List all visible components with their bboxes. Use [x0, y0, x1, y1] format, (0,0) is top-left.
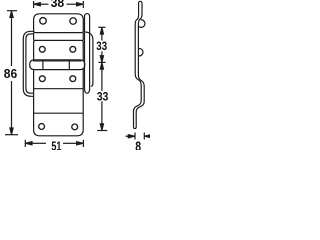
dim 51 right tick — [82, 140, 84, 147]
keeper side view hairpin loop — [85, 14, 90, 90]
body bottom edge line — [34, 88, 84, 90]
dim 33 chain mid tick — [98, 61, 105, 63]
dim 51 right arrow — [63, 142, 83, 145]
bar inner top line — [33, 60, 82, 62]
top plate hole left — [40, 18, 47, 25]
body hole row1 left — [39, 46, 45, 52]
svg-text:38: 38 — [51, 0, 65, 10]
dim 8 right tick — [143, 133, 145, 140]
hinge edge line left — [33, 33, 35, 41]
dim 33 chain top tick — [98, 26, 105, 28]
lower plate hole right — [72, 124, 78, 130]
strike side profile right edge — [136, 3, 144, 127]
bail wire outer — [23, 31, 33, 96]
body hole row2 left — [39, 76, 45, 82]
top keeper plate — [34, 14, 84, 33]
dim 38 right arrow — [67, 3, 84, 6]
dim 86 bottom tick — [5, 134, 18, 136]
dim 33 chain bottom tick — [97, 130, 107, 132]
strike boss upper — [138, 20, 145, 28]
top plate hole right — [70, 18, 77, 25]
hinge edge line right — [82, 33, 84, 41]
dim 86 top tick — [7, 10, 17, 12]
lower plate top edge line — [34, 112, 84, 114]
dim 51 left arrow — [26, 142, 46, 145]
keeper side view bottom cap — [85, 89, 90, 93]
bail wire inner — [26, 34, 34, 93]
dim 38 left arrow — [34, 3, 49, 6]
svg-text:51: 51 — [51, 140, 61, 150]
svg-text:8: 8 — [135, 139, 141, 150]
strike top cap — [139, 1, 142, 3]
dim 38 left tick — [33, 1, 35, 8]
keeper side view outer hook — [85, 32, 93, 86]
svg-text:86: 86 — [4, 67, 17, 81]
strike boss lower — [138, 49, 143, 56]
bar division 2 — [68, 60, 70, 70]
svg-text:33: 33 — [97, 89, 109, 103]
svg-text:33: 33 — [96, 39, 107, 53]
dim 38 right tick — [82, 1, 84, 8]
bar division 1 — [42, 60, 44, 70]
latch body and lower plate outline — [34, 40, 84, 135]
dim 86 vertical line with arrows — [10, 11, 13, 134]
dim 8 arrows — [126, 135, 152, 138]
dim 33 chain line and arrows — [100, 28, 103, 131]
lower plate hole left — [39, 124, 45, 130]
dim 8 left tick — [134, 133, 136, 140]
dim 51 left tick — [24, 140, 26, 147]
body hole row1 right — [70, 46, 76, 52]
body hole row2 right — [70, 76, 76, 82]
strike bottom cap — [134, 127, 137, 128]
toggle lever bar — [30, 60, 85, 70]
strike side profile left edge — [134, 3, 142, 127]
